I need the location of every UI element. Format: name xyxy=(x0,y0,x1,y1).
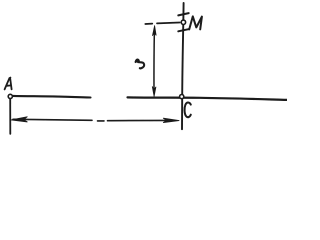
wire xyxy=(13,96,91,98)
extension line at M xyxy=(145,23,179,25)
dimension line l shaft xyxy=(153,29,155,92)
tick mark upper xyxy=(178,13,188,15)
dimension l up arrow xyxy=(153,26,157,36)
label M xyxy=(189,16,202,29)
dimension AC right arrow xyxy=(163,118,179,122)
node C xyxy=(180,95,184,99)
label C xyxy=(185,102,191,117)
wire xyxy=(128,97,288,100)
label A xyxy=(5,78,12,90)
dimension l down arrow xyxy=(152,87,156,97)
extension line below A xyxy=(9,99,11,134)
node A xyxy=(8,94,12,98)
label l loop fill xyxy=(136,60,139,63)
node M xyxy=(181,20,185,24)
dimension line AC shaft xyxy=(13,119,167,121)
wire xyxy=(182,3,184,129)
label l xyxy=(136,60,145,69)
tick mark lower xyxy=(178,29,188,31)
dimension AC left arrow xyxy=(11,117,27,122)
